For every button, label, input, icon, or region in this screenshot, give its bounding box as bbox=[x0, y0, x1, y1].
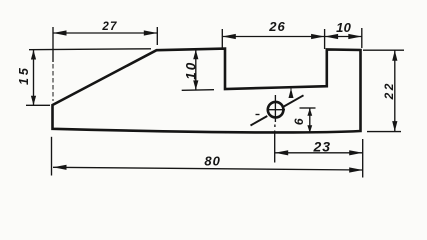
svg-text:26: 26 bbox=[268, 19, 285, 34]
svg-text:23: 23 bbox=[313, 139, 332, 155]
svg-text:10: 10 bbox=[336, 20, 351, 35]
svg-text:80: 80 bbox=[204, 153, 220, 168]
svg-text:6: 6 bbox=[292, 118, 306, 125]
svg-text:22: 22 bbox=[382, 81, 396, 100]
svg-text:10: 10 bbox=[183, 61, 198, 80]
svg-text:27: 27 bbox=[101, 21, 117, 33]
svg-text:15: 15 bbox=[17, 65, 31, 85]
